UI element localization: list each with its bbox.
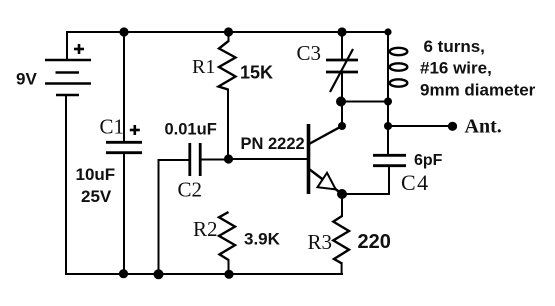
svg-text:9V: 9V (16, 70, 37, 89)
svg-text:C1: C1 (100, 115, 125, 139)
svg-text:6 turns,: 6 turns, (424, 37, 485, 56)
svg-text:25V: 25V (81, 187, 112, 206)
svg-text:R2: R2 (193, 217, 218, 241)
svg-text:3.9K: 3.9K (244, 230, 281, 249)
svg-text:0.01uF: 0.01uF (165, 121, 217, 139)
svg-text:220: 220 (358, 231, 391, 253)
svg-text:9mm diameter: 9mm diameter (420, 81, 536, 100)
svg-text:R1: R1 (192, 56, 215, 78)
svg-text:PN 2222: PN 2222 (241, 135, 305, 153)
svg-text:6pF: 6pF (414, 152, 443, 169)
svg-text:#16 wire,: #16 wire, (420, 59, 492, 78)
svg-text:Ant.: Ant. (465, 116, 502, 138)
svg-text:C2: C2 (178, 178, 203, 202)
svg-text:R3: R3 (308, 230, 333, 254)
svg-text:C3: C3 (297, 41, 322, 65)
svg-text:10uF: 10uF (76, 165, 116, 184)
svg-text:C4: C4 (401, 170, 430, 195)
svg-text:15K: 15K (240, 63, 273, 83)
